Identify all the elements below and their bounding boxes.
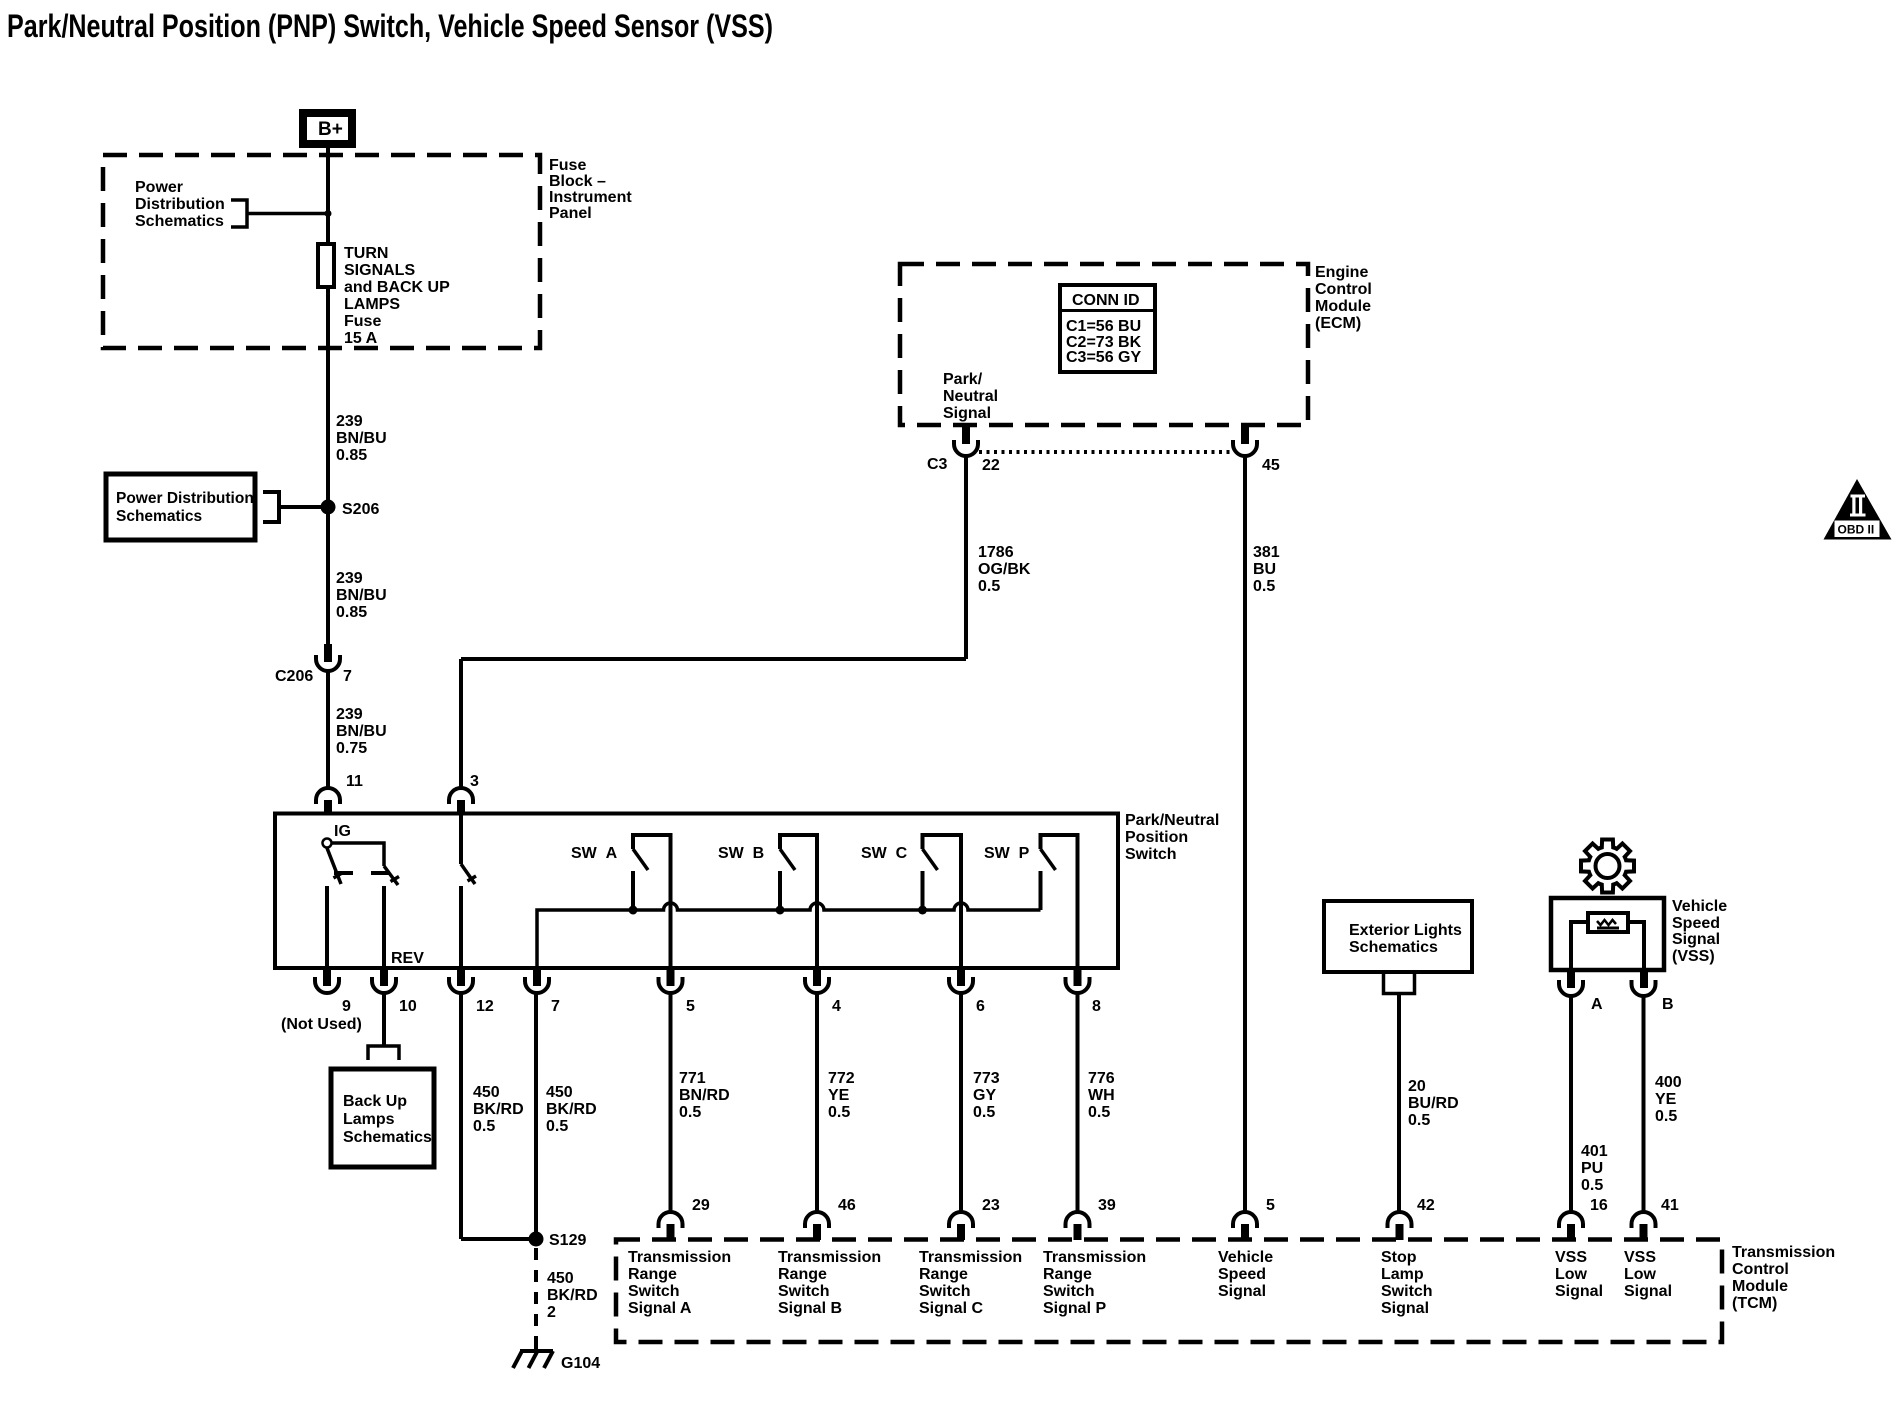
svg-text:7: 7 — [551, 998, 560, 1015]
svg-text:42: 42 — [1417, 1197, 1435, 1214]
svg-text:Vehicle: Vehicle — [1218, 1249, 1273, 1266]
svg-text:BK/RD: BK/RD — [547, 1287, 598, 1304]
svg-text:3: 3 — [470, 773, 479, 790]
svg-text:Fuse: Fuse — [344, 313, 381, 330]
svg-text:OG/BK: OG/BK — [978, 561, 1031, 578]
svg-text:Vehicle: Vehicle — [1672, 898, 1727, 915]
svg-text:0.5: 0.5 — [1408, 1112, 1430, 1129]
svg-text:29: 29 — [692, 1197, 710, 1214]
svg-text:C1=56 BU: C1=56 BU — [1066, 318, 1141, 335]
svg-text:39: 39 — [1098, 1197, 1116, 1214]
svg-text:Signal A: Signal A — [628, 1300, 692, 1317]
svg-text:TURN: TURN — [344, 245, 388, 262]
svg-text:Panel: Panel — [549, 205, 592, 222]
svg-text:0.5: 0.5 — [473, 1118, 495, 1135]
svg-text:Range: Range — [919, 1266, 968, 1283]
svg-text:2: 2 — [547, 1304, 556, 1321]
svg-text:239: 239 — [336, 706, 363, 723]
svg-text:9: 9 — [342, 998, 351, 1015]
svg-text:B+: B+ — [318, 119, 343, 140]
svg-text:Speed: Speed — [1218, 1266, 1266, 1283]
svg-text:BK/RD: BK/RD — [546, 1101, 597, 1118]
svg-text:Switch: Switch — [1381, 1283, 1433, 1300]
svg-text:0.5: 0.5 — [973, 1104, 995, 1121]
svg-text:REV: REV — [391, 950, 424, 967]
svg-text:Park/Neutral Position (PNP) Sw: Park/Neutral Position (PNP) Switch, Vehi… — [7, 8, 773, 44]
svg-text:Switch: Switch — [628, 1283, 680, 1300]
svg-text:Park/Neutral: Park/Neutral — [1125, 812, 1219, 829]
svg-text:Lamps: Lamps — [343, 1111, 395, 1128]
svg-text:G104: G104 — [561, 1355, 600, 1372]
svg-text:22: 22 — [982, 457, 1000, 474]
svg-text:Position: Position — [1125, 829, 1188, 846]
svg-text:SW B: SW B — [718, 845, 764, 862]
svg-text:SW A: SW A — [571, 845, 618, 862]
svg-text:4: 4 — [832, 998, 841, 1015]
svg-text:Signal: Signal — [943, 405, 991, 422]
svg-text:Speed: Speed — [1672, 915, 1720, 932]
svg-text:Range: Range — [778, 1266, 827, 1283]
svg-text:Low: Low — [1555, 1266, 1588, 1283]
svg-text:S129: S129 — [549, 1232, 586, 1249]
svg-text:Transmission: Transmission — [1732, 1244, 1835, 1261]
svg-text:Park/: Park/ — [943, 371, 983, 388]
svg-text:401: 401 — [1581, 1143, 1608, 1160]
svg-text:Signal B: Signal B — [778, 1300, 842, 1317]
svg-text:10: 10 — [399, 998, 417, 1015]
svg-text:Switch: Switch — [1043, 1283, 1095, 1300]
svg-text:239: 239 — [336, 570, 363, 587]
svg-text:Schematics: Schematics — [135, 213, 224, 230]
svg-text:CONN ID: CONN ID — [1072, 292, 1140, 309]
svg-text:Signal: Signal — [1672, 931, 1720, 948]
svg-text:0.85: 0.85 — [336, 604, 367, 621]
svg-text:Transmission: Transmission — [1043, 1249, 1146, 1266]
svg-text:15 A: 15 A — [344, 330, 378, 347]
svg-text:11: 11 — [346, 773, 363, 790]
svg-text:Module: Module — [1732, 1278, 1788, 1295]
svg-text:Transmission: Transmission — [778, 1249, 881, 1266]
svg-text:23: 23 — [982, 1197, 1000, 1214]
svg-text:VSS: VSS — [1555, 1249, 1587, 1266]
svg-text:Schematics: Schematics — [343, 1129, 432, 1146]
svg-text:Signal: Signal — [1381, 1300, 1429, 1317]
svg-text:0.5: 0.5 — [828, 1104, 850, 1121]
svg-text:LAMPS: LAMPS — [344, 296, 400, 313]
svg-text:Low: Low — [1624, 1266, 1657, 1283]
svg-text:BU/RD: BU/RD — [1408, 1095, 1459, 1112]
svg-text:45: 45 — [1262, 457, 1280, 474]
svg-text:C3: C3 — [927, 456, 948, 473]
svg-text:(Not Used): (Not Used) — [281, 1016, 362, 1033]
svg-text:B: B — [1662, 996, 1674, 1013]
svg-text:0.5: 0.5 — [1253, 578, 1275, 595]
svg-text:12: 12 — [476, 998, 494, 1015]
svg-text:S206: S206 — [342, 501, 379, 518]
svg-text:776: 776 — [1088, 1070, 1115, 1087]
svg-text:PU: PU — [1581, 1160, 1603, 1177]
svg-text:SW P: SW P — [984, 845, 1030, 862]
svg-text:Signal: Signal — [1218, 1283, 1266, 1300]
svg-text:450: 450 — [546, 1084, 573, 1101]
svg-text:0.5: 0.5 — [978, 578, 1000, 595]
svg-text:41: 41 — [1661, 1197, 1679, 1214]
svg-text:Transmission: Transmission — [628, 1249, 731, 1266]
svg-text:Signal: Signal — [1555, 1283, 1603, 1300]
svg-text:Instrument: Instrument — [549, 189, 632, 206]
svg-text:0.5: 0.5 — [679, 1104, 701, 1121]
svg-text:6: 6 — [976, 998, 985, 1015]
svg-text:Exterior Lights: Exterior Lights — [1349, 922, 1462, 939]
svg-text:16: 16 — [1590, 1197, 1608, 1214]
svg-text:Lamp: Lamp — [1381, 1266, 1424, 1283]
svg-text:BN/BU: BN/BU — [336, 430, 387, 447]
svg-text:Schematics: Schematics — [116, 508, 202, 525]
svg-text:0.75: 0.75 — [336, 740, 367, 757]
svg-text:0.5: 0.5 — [1581, 1177, 1603, 1194]
svg-text:5: 5 — [1266, 1197, 1275, 1214]
svg-text:Switch: Switch — [919, 1283, 971, 1300]
svg-text:A: A — [1591, 996, 1603, 1013]
svg-text:Neutral: Neutral — [943, 388, 998, 405]
svg-text:400: 400 — [1655, 1074, 1682, 1091]
svg-text:BN/BU: BN/BU — [336, 587, 387, 604]
svg-text:Module: Module — [1315, 298, 1371, 315]
svg-text:Engine: Engine — [1315, 264, 1368, 281]
svg-text:Signal C: Signal C — [919, 1300, 983, 1317]
svg-text:Block –: Block – — [549, 173, 606, 190]
svg-text:0.5: 0.5 — [546, 1118, 568, 1135]
svg-text:(ECM): (ECM) — [1315, 315, 1361, 332]
svg-text:IG: IG — [334, 823, 351, 840]
svg-text:C206: C206 — [275, 668, 313, 685]
svg-text:Fuse: Fuse — [549, 157, 586, 174]
svg-text:0.85: 0.85 — [336, 447, 367, 464]
svg-text:YE: YE — [1655, 1091, 1677, 1108]
svg-text:and BACK UP: and BACK UP — [344, 279, 450, 296]
svg-text:0.5: 0.5 — [1088, 1104, 1110, 1121]
svg-text:Back Up: Back Up — [343, 1093, 407, 1110]
svg-text:BN/BU: BN/BU — [336, 723, 387, 740]
svg-text:OBD II: OBD II — [1838, 523, 1875, 537]
svg-text:Switch: Switch — [778, 1283, 830, 1300]
svg-text:46: 46 — [838, 1197, 856, 1214]
svg-text:20: 20 — [1408, 1078, 1426, 1095]
svg-text:Range: Range — [1043, 1266, 1092, 1283]
svg-text:8: 8 — [1092, 998, 1101, 1015]
svg-text:YE: YE — [828, 1087, 850, 1104]
svg-text:450: 450 — [473, 1084, 500, 1101]
svg-text:SIGNALS: SIGNALS — [344, 262, 415, 279]
svg-text:239: 239 — [336, 413, 363, 430]
svg-text:772: 772 — [828, 1070, 855, 1087]
svg-text:GY: GY — [973, 1087, 996, 1104]
svg-text:5: 5 — [686, 998, 695, 1015]
svg-text:WH: WH — [1088, 1087, 1115, 1104]
svg-text:771: 771 — [679, 1070, 706, 1087]
svg-text:BN/RD: BN/RD — [679, 1087, 730, 1104]
svg-text:Distribution: Distribution — [135, 196, 225, 213]
svg-text:Stop: Stop — [1381, 1249, 1417, 1266]
svg-text:Power: Power — [135, 179, 183, 196]
svg-text:Signal P: Signal P — [1043, 1300, 1106, 1317]
svg-text:BU: BU — [1253, 561, 1276, 578]
svg-text:SW C: SW C — [861, 845, 908, 862]
svg-text:Control: Control — [1732, 1261, 1789, 1278]
svg-text:BK/RD: BK/RD — [473, 1101, 524, 1118]
svg-text:7: 7 — [343, 668, 352, 685]
svg-text:VSS: VSS — [1624, 1249, 1656, 1266]
svg-text:Range: Range — [628, 1266, 677, 1283]
svg-text:Signal: Signal — [1624, 1283, 1672, 1300]
svg-text:381: 381 — [1253, 544, 1280, 561]
svg-text:1786: 1786 — [978, 544, 1014, 561]
svg-text:Switch: Switch — [1125, 846, 1177, 863]
svg-text:Power Distribution: Power Distribution — [116, 490, 254, 507]
svg-text:Schematics: Schematics — [1349, 939, 1438, 956]
svg-text:Control: Control — [1315, 281, 1372, 298]
svg-text:0.5: 0.5 — [1655, 1108, 1677, 1125]
svg-text:(TCM): (TCM) — [1732, 1295, 1777, 1312]
svg-text:C3=56 GY: C3=56 GY — [1066, 349, 1141, 366]
svg-text:450: 450 — [547, 1270, 574, 1287]
svg-text:773: 773 — [973, 1070, 1000, 1087]
svg-text:(VSS): (VSS) — [1672, 948, 1715, 965]
svg-text:Transmission: Transmission — [919, 1249, 1022, 1266]
